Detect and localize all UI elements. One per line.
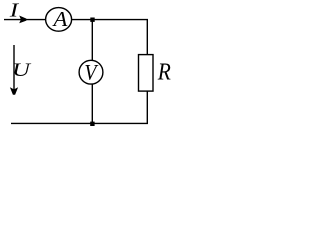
voltage arrow U shaft <box>13 45 15 91</box>
wire bottom segment <box>11 122 148 124</box>
wire right branch upper <box>146 20 148 55</box>
svg-text:A: A <box>51 8 68 31</box>
voltage arrow U head <box>10 87 18 95</box>
resistor label R <box>157 57 171 85</box>
resistor R body <box>139 55 154 92</box>
svg-text:U: U <box>12 59 32 81</box>
node junction dot top <box>90 18 94 22</box>
node junction dot bottom <box>90 122 94 126</box>
wire voltmeter branch upper <box>91 20 93 61</box>
svg-text:I: I <box>9 0 20 21</box>
label I <box>9 0 20 21</box>
wire right branch lower <box>146 91 148 123</box>
svg-text:R: R <box>157 57 171 85</box>
voltmeter label V <box>84 59 99 85</box>
wire voltmeter branch lower <box>91 84 93 124</box>
ammeter A1 circle <box>46 8 72 32</box>
wire top-right segment <box>71 19 148 21</box>
wire top-left segment <box>4 19 46 21</box>
label U <box>12 59 32 81</box>
svg-text:V: V <box>84 59 99 85</box>
voltmeter V1 circle <box>79 60 103 84</box>
ammeter label A <box>51 8 68 31</box>
current direction arrowhead <box>19 16 26 24</box>
